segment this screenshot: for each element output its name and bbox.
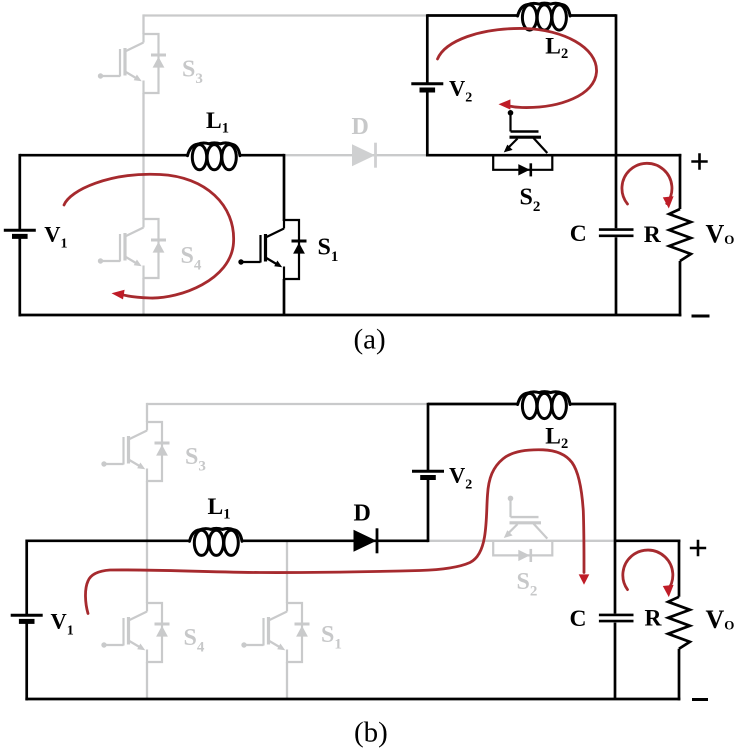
svg-text:(b): (b) <box>354 717 388 749</box>
svg-text:S1: S1 <box>321 622 342 653</box>
svg-text:V1: V1 <box>51 608 74 638</box>
svg-text:C: C <box>570 221 587 247</box>
wire: left vertical with source V1 (b) <box>25 540 28 701</box>
plus terminal (a) <box>691 153 707 169</box>
svg-text:V2: V2 <box>449 75 472 105</box>
wire: grey middle rail segment (b) <box>428 540 615 542</box>
diode D (black, b) <box>354 528 378 553</box>
transistor S2 (black, a) <box>493 110 552 176</box>
resistor R (b) <box>668 597 690 649</box>
wire: grey left half-bridge vertical (a), S3/S4 branch <box>142 14 144 315</box>
svg-text:L1: L1 <box>208 494 231 523</box>
svg-text:C: C <box>570 606 587 632</box>
svg-text:VO: VO <box>706 605 734 634</box>
plus terminal (b) <box>690 540 706 556</box>
wire: main rail black left segment with L1 and D (b) <box>27 539 428 542</box>
inductor L2 (a) <box>518 3 571 30</box>
wire: main rail right black segment (a) <box>427 154 681 157</box>
red arrowhead, upper-right mesh (a) <box>499 99 511 109</box>
wire: V2 branch vertical (a) <box>426 14 429 156</box>
red current flow path (b) <box>85 450 584 614</box>
red arrowhead, output mesh (b) <box>663 585 674 597</box>
wire: bottom rail (b) <box>25 698 680 701</box>
wire: left vertical with source V1 (a) <box>18 154 21 317</box>
transistor S1 (black, a) <box>238 219 306 280</box>
red current loop arrow, left mesh (a) <box>64 174 234 298</box>
transistor S1 (grey, b) <box>241 602 309 663</box>
red current loop arrow, output mesh (a) <box>622 163 672 204</box>
diode D (grey, a) <box>352 143 376 168</box>
capacitor C (b) <box>599 615 634 621</box>
svg-text:R: R <box>645 606 663 632</box>
svg-text:L2: L2 <box>545 34 568 63</box>
wire: grey left half-bridge vertical (b), S3/S4 branch <box>146 403 148 699</box>
svg-text:V2: V2 <box>449 462 472 492</box>
battery V1 (b) <box>11 615 43 621</box>
svg-text:R: R <box>644 222 662 248</box>
battery V2 (a) <box>411 84 443 90</box>
transistor S4 (grey, b) <box>101 602 169 663</box>
svg-text:(a): (a) <box>354 324 386 356</box>
svg-text:L1: L1 <box>206 108 229 137</box>
wire: grey top rail (b) <box>147 403 428 405</box>
svg-text:L2: L2 <box>545 424 568 453</box>
wire: load branch verticals (a) <box>679 154 682 317</box>
svg-text:S1: S1 <box>318 234 339 264</box>
transistor S2 (grey, b) <box>493 496 552 562</box>
svg-text:S3: S3 <box>182 57 203 88</box>
battery V1 (a) <box>4 230 36 236</box>
resistor R (a) <box>669 209 691 261</box>
svg-text:S4: S4 <box>181 243 202 274</box>
wire: load branch verticals (b) <box>678 540 681 701</box>
battery V2 (b) <box>412 471 444 477</box>
wire: grey top rail (a) <box>144 14 428 16</box>
svg-text:VO: VO <box>706 220 734 249</box>
wire: top rail black segment with L2 (a) <box>427 14 616 17</box>
transistor S4 (grey, a) <box>98 218 166 279</box>
capacitor C (a) <box>599 230 634 236</box>
transistor S3 (grey, a) <box>98 33 166 94</box>
red current loop arrow, output mesh (b) <box>623 550 673 590</box>
svg-text:S4: S4 <box>184 625 205 656</box>
red current loop arrow, upper-right mesh (a) <box>438 28 597 107</box>
red arrowhead, left mesh (a) <box>112 290 125 300</box>
wire: bottom rail (a) <box>19 314 682 317</box>
wire: right vertical with capacitor C (b) <box>614 403 617 699</box>
svg-text:D: D <box>354 501 371 527</box>
red arrowhead, flow path (b) <box>579 574 590 584</box>
transistor S3 (grey, b) <box>101 421 169 482</box>
inductor L2 (b) <box>518 392 571 419</box>
svg-text:D: D <box>352 114 369 140</box>
wire: rail to load branch (b) <box>615 539 680 542</box>
wire: main rail left black segment (a) <box>20 154 284 157</box>
wire: top rail black segment with L2 (b) <box>428 403 615 406</box>
inductor L1 (b) <box>190 528 243 555</box>
wire: grey S1 branch vertical (b) <box>286 541 288 699</box>
svg-text:S2: S2 <box>520 184 541 215</box>
wire: V2 branch vertical (b) <box>427 403 430 542</box>
minus terminal (a) <box>692 315 710 318</box>
wire: grey middle rail segment with diode D (a) <box>284 154 427 156</box>
wire: right vertical with capacitor C (a) <box>615 14 618 315</box>
red arrowhead, output mesh (a) <box>663 196 674 208</box>
svg-text:S3: S3 <box>185 444 206 475</box>
svg-text:S2: S2 <box>517 569 538 600</box>
svg-text:V1: V1 <box>44 222 67 252</box>
inductor L1 (a) <box>188 143 241 170</box>
minus terminal (b) <box>692 698 708 701</box>
wire: S1 branch vertical (a) <box>283 154 286 315</box>
